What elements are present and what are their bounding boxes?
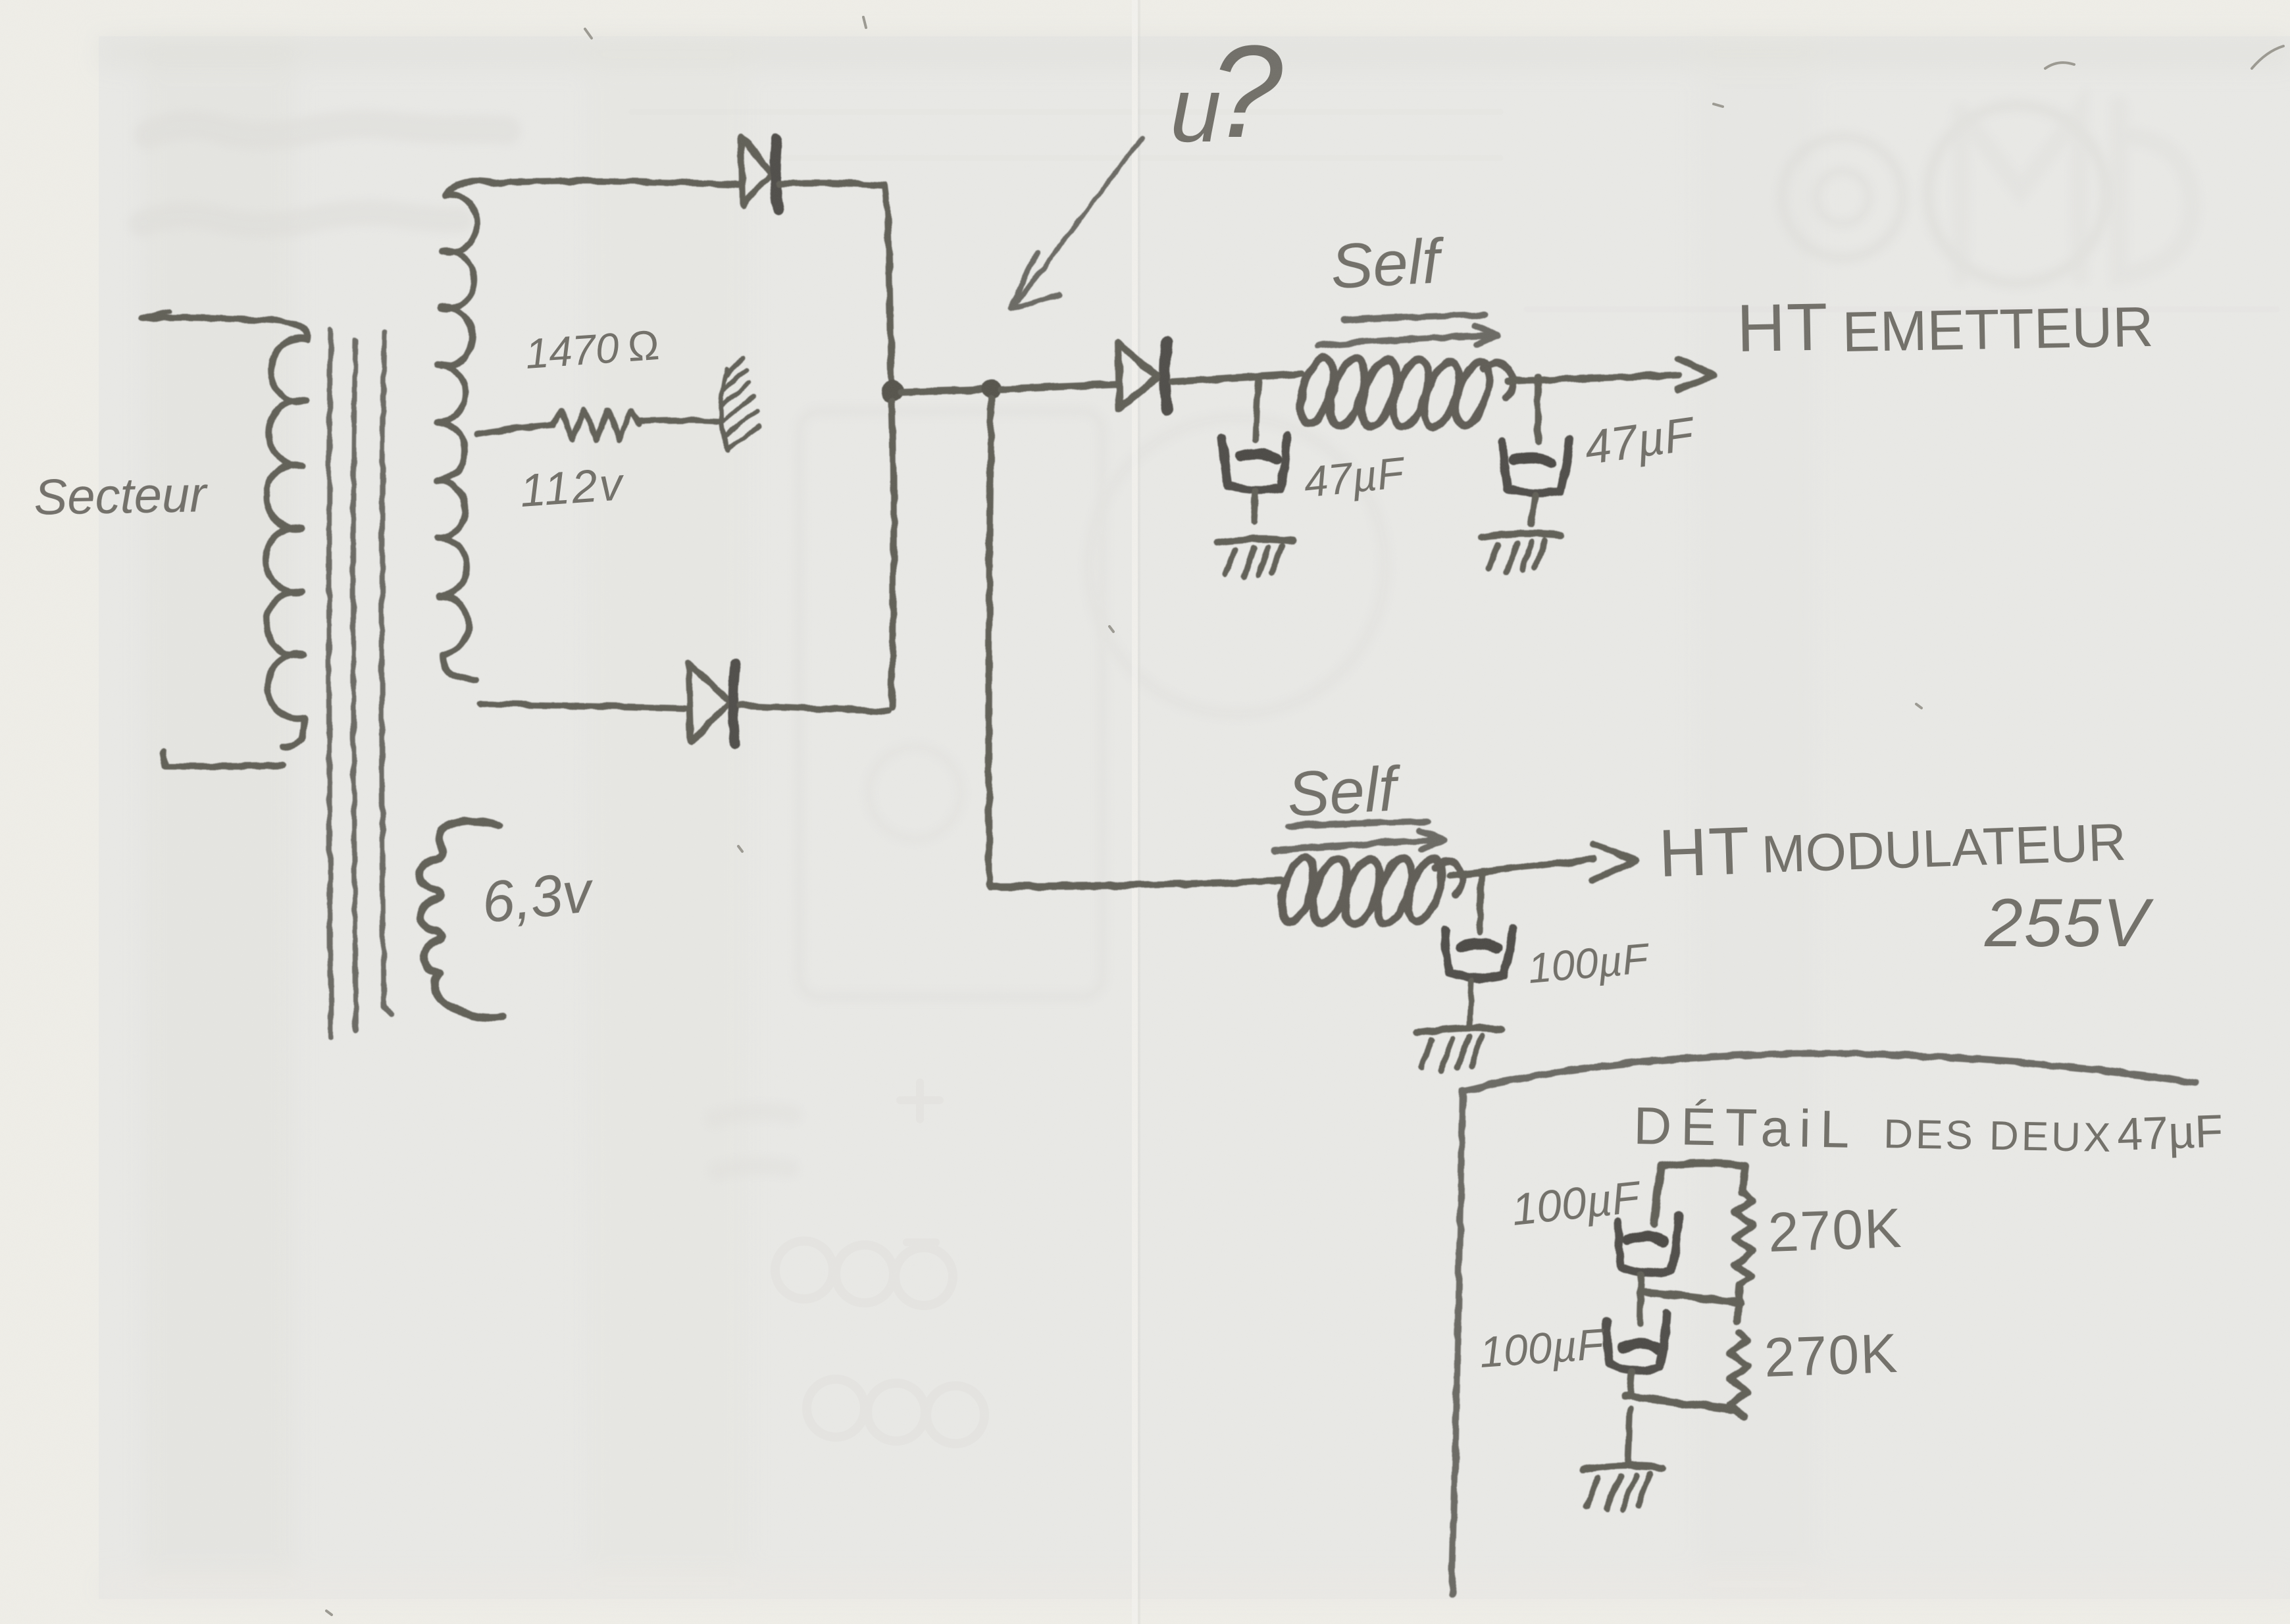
node B (junction dot) xyxy=(982,379,1002,399)
ground (C2) xyxy=(1482,534,1560,537)
detail: bottom link wire xyxy=(1625,1396,1733,1409)
wire: resistor to tap electrode xyxy=(639,420,719,422)
diode D3 (bottom) xyxy=(688,663,730,742)
transformer T1 primary winding xyxy=(263,320,308,747)
underline pair above L1 xyxy=(1344,315,1485,320)
underline pair above L2 xyxy=(1288,821,1428,826)
top-right bleed-through stamp/logo xyxy=(1782,105,2192,283)
resistor tap wire from secondary xyxy=(478,425,553,434)
detail capacitor C4 100uF xyxy=(1628,1236,1664,1241)
wire: tee down to C2 xyxy=(1538,377,1539,442)
wire: node B down to modulateur branch xyxy=(989,399,992,883)
central bleed-through pcb shapes xyxy=(632,112,2277,1444)
ground (C1) xyxy=(1217,539,1292,542)
detail: middle link wire xyxy=(1645,1292,1740,1303)
detail section boundary line (vertical) xyxy=(1452,1090,1463,1594)
wire: L2 to HT MODULATEUR arrow xyxy=(1450,859,1592,875)
capacitor C3 100uF xyxy=(1462,944,1496,948)
detail capacitor C5 100uF xyxy=(1623,1344,1658,1349)
fold crease xyxy=(1132,0,1138,1624)
arrow annotation for U? xyxy=(1011,138,1142,309)
wire: node B to D2 xyxy=(1001,384,1117,389)
detail resistor R2 270K xyxy=(1729,1333,1748,1416)
wire: mains input lead (top of primary) xyxy=(141,317,263,320)
ground (detail) xyxy=(1583,1465,1662,1470)
diode D1 (top) xyxy=(742,137,771,205)
wire: node A down to bottom loop xyxy=(892,401,894,708)
capacitor C2 47uF xyxy=(1514,458,1551,463)
wire: node A to node B xyxy=(902,390,982,392)
transformer T1 secondary winding (HT) xyxy=(437,182,492,679)
wire: secondary bottom to D3 xyxy=(480,704,684,708)
resistor 1470 ohm (zigzag) xyxy=(553,409,639,440)
diode D2 (series) xyxy=(1118,343,1158,409)
transformer 6,3V heater winding xyxy=(419,821,503,1017)
adjustable tap electrode (hatched) xyxy=(721,358,759,450)
capacitor C1 47uF xyxy=(1240,454,1275,459)
wire: tee down to C1 xyxy=(1256,378,1259,440)
node A (junction dot) xyxy=(881,380,903,402)
top-left bleed-through text rows xyxy=(141,124,507,225)
wire: secondary top to D1 xyxy=(492,181,738,185)
wire: bottom lead of primary xyxy=(163,752,283,767)
wire: D3 to corner up xyxy=(740,705,888,711)
detail resistor R1 270K xyxy=(1735,1192,1753,1321)
ground (C3) xyxy=(1416,1028,1502,1033)
wire: tee down to C3 xyxy=(1479,871,1482,932)
inductor L1 (self, emitter branch) xyxy=(1294,354,1512,431)
wire: D1 to corner and down to node A xyxy=(779,183,892,385)
wire: corner to self L2 xyxy=(989,880,1280,886)
detail: wire to ground xyxy=(1628,1409,1630,1462)
wire: D2 to self L1 xyxy=(1173,374,1302,382)
divider curve above detail section xyxy=(1465,1053,2195,1091)
inductor L2 (self, modulateur branch) xyxy=(1275,854,1462,928)
wire: L1 to HT EMETTEUR arrow xyxy=(1507,375,1679,382)
detail: top bracket xyxy=(1661,1163,1745,1193)
transformer core laminations xyxy=(329,330,331,1038)
